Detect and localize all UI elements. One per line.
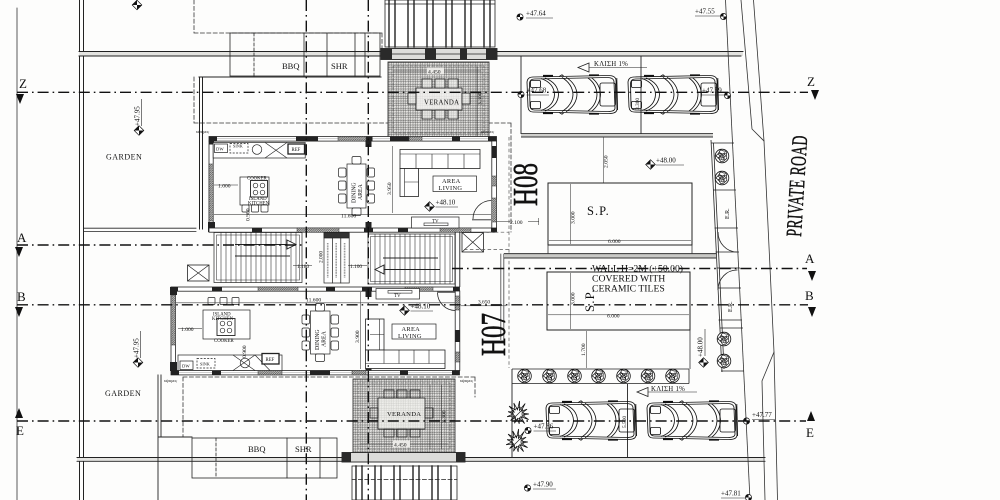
svg-text:2.050: 2.050 bbox=[604, 155, 610, 168]
plot boundary east (slanted) bbox=[726, 0, 751, 500]
svg-text:SINK: SINK bbox=[233, 144, 243, 149]
car 2 bbox=[628, 75, 719, 114]
H08 roof overhang dashed top bbox=[194, 0, 382, 51]
svg-text:AREA: AREA bbox=[358, 183, 364, 200]
S.P. room H07 bbox=[547, 272, 690, 330]
svg-text:GARDEN: GARDEN bbox=[106, 153, 142, 162]
bottom stairs landing band bbox=[342, 453, 465, 463]
svg-text:SHR: SHR bbox=[331, 61, 348, 71]
H07 roof overhang dashed bbox=[183, 377, 475, 437]
KLISI 1% arrow bottom bbox=[637, 386, 697, 397]
H07 interior columns bbox=[366, 291, 372, 297]
svg-text:DW: DW bbox=[182, 364, 190, 369]
dim 1.100 bbox=[348, 264, 367, 270]
H08 island kitchen bbox=[240, 177, 269, 212]
strip west edge bbox=[711, 140, 724, 372]
tree B bbox=[506, 429, 528, 452]
svg-text:SINK: SINK bbox=[200, 362, 210, 367]
level +47.68 bbox=[518, 87, 549, 98]
S.P. room H08 bbox=[548, 183, 692, 245]
vertical gridline 1 bbox=[305, 0, 307, 500]
H07 north wall bbox=[171, 287, 460, 291]
svg-text:+47.90: +47.90 bbox=[533, 481, 553, 489]
dim 6.000 lower bbox=[548, 313, 689, 319]
svg-text:E: E bbox=[806, 425, 814, 440]
H07 dining table bbox=[302, 304, 339, 362]
level +48.00 upper bbox=[646, 157, 684, 170]
svg-text:+48.10: +48.10 bbox=[411, 303, 431, 311]
gridline A left bbox=[17, 244, 305, 246]
label A left bbox=[15, 230, 27, 257]
svg-text:+48.10: +48.10 bbox=[436, 199, 456, 207]
svg-text:+47.77: +47.77 bbox=[752, 411, 772, 419]
gridline Z bbox=[17, 91, 808, 93]
H08 entry door arc bbox=[472, 201, 491, 220]
svg-text:AREA: AREA bbox=[442, 178, 461, 185]
gridline B bbox=[17, 304, 808, 306]
svg-text:Z: Z bbox=[19, 76, 27, 91]
svg-text:κέραμος: κέραμος bbox=[460, 378, 474, 383]
dim 2.050 rot bbox=[604, 137, 610, 183]
svg-text:+47.86: +47.86 bbox=[534, 423, 554, 431]
svg-text:1.000: 1.000 bbox=[218, 184, 231, 190]
interior line south H08 bbox=[214, 214, 491, 216]
svg-text:3.950: 3.950 bbox=[387, 182, 393, 195]
H07 west wall bbox=[170, 287, 177, 371]
svg-text:6.000: 6.000 bbox=[608, 239, 621, 245]
svg-text:κέραμος: κέραμος bbox=[164, 378, 178, 383]
shaft box right bbox=[462, 233, 484, 253]
svg-text:E.R.: E.R. bbox=[725, 208, 731, 219]
H08 interior column at grid bbox=[366, 141, 372, 147]
svg-text:BBQ: BBQ bbox=[282, 61, 299, 71]
label E left bbox=[15, 408, 24, 438]
svg-text:+47.55: +47.55 bbox=[695, 8, 715, 16]
level +47.86 bbox=[525, 423, 556, 434]
level +47.90 bbox=[524, 481, 556, 492]
dim 3.300 top veranda bbox=[477, 67, 484, 136]
svg-text:VERANDA: VERANDA bbox=[387, 411, 421, 418]
bay divider S bbox=[627, 384, 629, 457]
utility closets bbox=[324, 233, 349, 284]
svg-text:Z: Z bbox=[807, 74, 815, 89]
H08 roof overhang dashed around house bbox=[194, 77, 511, 232]
svg-text:DINING: DINING bbox=[352, 182, 358, 203]
svg-text:KITCHEN: KITCHEN bbox=[248, 202, 270, 207]
car 1 bbox=[527, 75, 618, 114]
label Z left bbox=[16, 76, 27, 104]
right stair block bbox=[368, 234, 455, 284]
west plot line bbox=[16, 8, 18, 500]
garden wall west of H07 bbox=[158, 375, 192, 500]
svg-text:ΚΛΙΣΗ 1%: ΚΛΙΣΗ 1% bbox=[594, 61, 628, 68]
KLISI 1% arrow top bbox=[578, 61, 647, 72]
WALL text block bbox=[592, 264, 683, 295]
level +47.81 bbox=[721, 490, 752, 500]
dim 3.300 bottom veranda bbox=[430, 385, 448, 449]
top stairs landing band bbox=[381, 49, 497, 60]
dim 4.450 top veranda bbox=[394, 68, 481, 76]
H07 east wall bbox=[455, 291, 460, 371]
svg-text:3.000: 3.000 bbox=[571, 292, 577, 305]
svg-text:+47.81: +47.81 bbox=[721, 490, 741, 498]
dim 2.100 bbox=[497, 218, 539, 226]
parking west edge S bbox=[511, 369, 513, 457]
svg-text:+47.95: +47.95 bbox=[134, 106, 142, 126]
svg-text:REF: REF bbox=[292, 148, 301, 153]
north walkway double line bbox=[79, 52, 743, 57]
road edge continuation bbox=[774, 352, 778, 500]
dim 3.000 rot upper bbox=[571, 184, 577, 244]
bay divider bbox=[640, 56, 642, 134]
svg-text:+47.64: +47.64 bbox=[526, 10, 546, 18]
level +48.10 H08 bbox=[425, 199, 458, 212]
H08 east wall bbox=[492, 141, 497, 228]
TV H08 bbox=[412, 217, 460, 228]
top stairs to parking bbox=[385, 0, 495, 47]
svg-text:AREA: AREA bbox=[322, 330, 328, 347]
svg-text:6.000: 6.000 bbox=[607, 313, 620, 319]
level +47.95 upper bbox=[134, 99, 144, 135]
dim 1.000 H07 bbox=[178, 327, 202, 333]
west garden double wall bbox=[80, 0, 84, 500]
BBQ row bottom bbox=[192, 438, 337, 478]
south walkway double line bbox=[77, 458, 765, 462]
dim 1.700 rot bbox=[581, 331, 587, 368]
dim 4.450 bottom veranda bbox=[360, 441, 448, 449]
H08 dining table bbox=[339, 157, 375, 216]
garden wall H=2m vertical run bbox=[501, 254, 504, 340]
interior line north H07 bbox=[176, 302, 455, 304]
veranda H07 table bbox=[370, 390, 433, 437]
svg-text:2.100: 2.100 bbox=[510, 220, 523, 226]
level +47.55 bbox=[695, 8, 727, 20]
level +48.00 lower rot bbox=[697, 329, 709, 367]
dim 3.950 H08 bbox=[387, 146, 393, 213]
svg-text:REF: REF bbox=[266, 358, 275, 363]
planters H08 strip bbox=[715, 149, 729, 163]
svg-text:S.P.: S.P. bbox=[587, 204, 610, 218]
corridor wall east bbox=[455, 232, 460, 287]
svg-text:H08: H08 bbox=[506, 163, 545, 206]
svg-text:5.500: 5.500 bbox=[622, 416, 628, 428]
H08 west wall bbox=[208, 137, 215, 233]
dim 3.000 rot lower bbox=[571, 273, 577, 329]
dim 1.000 H08 bbox=[214, 184, 238, 190]
dim 1.180 bbox=[293, 264, 312, 270]
garden wall H=2m horizontal run (ceramic tiles) bbox=[504, 254, 716, 258]
svg-text:3.300: 3.300 bbox=[478, 92, 484, 105]
gridline A right bbox=[452, 268, 807, 270]
veranda H08 hatched terrace bbox=[388, 62, 489, 137]
svg-text:4.450: 4.450 bbox=[394, 443, 407, 449]
BBQ row top bbox=[230, 33, 380, 76]
label E right bbox=[806, 411, 815, 440]
SP connector lines bbox=[548, 245, 692, 369]
dim 6.000 upper bbox=[549, 239, 691, 245]
planter band bbox=[512, 369, 689, 384]
svg-text:KITCHEN: KITCHEN bbox=[212, 317, 234, 322]
svg-text:11.600: 11.600 bbox=[306, 298, 321, 304]
gridline E bbox=[17, 420, 806, 422]
strip dividers H07 bbox=[717, 268, 745, 371]
svg-text:TV: TV bbox=[394, 294, 401, 299]
svg-text:COOKER: COOKER bbox=[247, 177, 268, 182]
parcel split dashed line bbox=[464, 137, 509, 368]
left stair block bbox=[214, 233, 302, 283]
garden path to H08 entry bbox=[84, 228, 196, 231]
H07 sofa bbox=[366, 319, 446, 369]
private road west edge upper bbox=[741, 0, 764, 141]
car 3 bbox=[546, 401, 637, 440]
svg-text:A: A bbox=[805, 251, 815, 266]
H08 south wall bbox=[209, 228, 497, 232]
H07 entry door arc bbox=[437, 292, 456, 310]
svg-text:SHR: SHR bbox=[295, 444, 312, 454]
H07 kitchen counter bbox=[178, 354, 282, 371]
svg-text:B: B bbox=[805, 288, 814, 303]
svg-text:4.450: 4.450 bbox=[428, 70, 441, 76]
svg-text:κέραμος: κέραμος bbox=[481, 129, 495, 134]
vertical gridline 2 bbox=[367, 0, 369, 500]
AREA LIVING box H07 bbox=[392, 324, 436, 340]
svg-text:GARDEN: GARDEN bbox=[105, 389, 141, 398]
level +47.77 bbox=[743, 411, 775, 424]
svg-text:COOKER: COOKER bbox=[214, 339, 235, 344]
svg-text:E: E bbox=[16, 423, 24, 438]
parking south band bbox=[521, 134, 713, 137]
svg-text:11.600: 11.600 bbox=[341, 214, 356, 220]
svg-text:DINING: DINING bbox=[315, 329, 321, 350]
svg-text:0.900: 0.900 bbox=[242, 345, 248, 358]
planters H07 strip bbox=[717, 332, 731, 346]
svg-text:VERANDA: VERANDA bbox=[424, 100, 459, 107]
H07 island kitchen bbox=[203, 298, 250, 340]
svg-text:+47.68: +47.68 bbox=[527, 87, 547, 95]
veranda H08 table bbox=[408, 79, 470, 119]
car 4 bbox=[647, 401, 738, 440]
parking west edge bbox=[520, 56, 522, 134]
gate arc H08 bbox=[718, 232, 737, 252]
svg-text:TV: TV bbox=[432, 220, 439, 225]
svg-text:A: A bbox=[17, 230, 27, 245]
private road east edge bbox=[754, 0, 775, 500]
svg-text:1.180: 1.180 bbox=[297, 264, 309, 270]
H08 north wall with windows bbox=[209, 137, 497, 142]
svg-text:B: B bbox=[17, 289, 26, 304]
level +47.59 bbox=[702, 87, 731, 99]
svg-text:CERAMIC TILES: CERAMIC TILES bbox=[592, 284, 665, 295]
marker garden top bbox=[132, 0, 142, 10]
label A right bbox=[805, 251, 816, 281]
garden wall west of H08 bbox=[199, 77, 381, 229]
AREA LIVING box H08 bbox=[433, 176, 477, 192]
tree A bbox=[507, 401, 529, 424]
svg-text:BBQ: BBQ bbox=[248, 444, 265, 454]
level +48.10 H07 bbox=[400, 303, 433, 316]
label B left bbox=[15, 289, 26, 317]
svg-text:LIVING: LIVING bbox=[439, 185, 463, 192]
svg-text:H07: H07 bbox=[474, 313, 513, 356]
svg-text:3.000: 3.000 bbox=[571, 211, 577, 224]
svg-text:DW: DW bbox=[216, 147, 224, 152]
H08 sofa bbox=[400, 150, 480, 197]
svg-text:+47.95: +47.95 bbox=[133, 338, 141, 358]
svg-text:ΚΛΙΣΗ 1%: ΚΛΙΣΗ 1% bbox=[651, 386, 685, 393]
label Z right bbox=[807, 74, 819, 100]
svg-text:S.P.: S.P. bbox=[582, 288, 597, 312]
dim 3.650 bbox=[461, 300, 506, 306]
label B right bbox=[805, 288, 816, 317]
strip dividers H08 bbox=[711, 143, 739, 252]
svg-text:3.900: 3.900 bbox=[355, 330, 361, 343]
shaft box left bbox=[188, 265, 210, 281]
level +47.95 lower bbox=[133, 331, 143, 367]
svg-text:+48.00: +48.00 bbox=[697, 337, 705, 357]
H07 south wall with windows bbox=[171, 371, 460, 375]
planters row bbox=[518, 369, 532, 383]
svg-text:1.100: 1.100 bbox=[350, 264, 362, 270]
level +47.64 bbox=[517, 10, 553, 21]
veranda H07 hatched terrace bbox=[353, 379, 455, 453]
svg-text:1.700: 1.700 bbox=[581, 343, 587, 356]
svg-text:κέραμος: κέραμος bbox=[196, 129, 210, 134]
svg-text:+48.00: +48.00 bbox=[656, 157, 676, 165]
svg-text:E.R.: E.R. bbox=[728, 301, 734, 312]
TV H07 bbox=[376, 289, 420, 300]
H08 kitchen counter bbox=[213, 143, 305, 159]
svg-text:+47.59: +47.59 bbox=[702, 87, 722, 95]
svg-text:LIVING: LIVING bbox=[398, 333, 422, 340]
bottom stairs bbox=[352, 466, 457, 500]
dim 3.900 rot H07 bbox=[355, 292, 361, 369]
svg-text:1.000: 1.000 bbox=[181, 327, 194, 333]
gate arc H07 bbox=[718, 270, 738, 290]
svg-text:2.000: 2.000 bbox=[319, 251, 325, 263]
